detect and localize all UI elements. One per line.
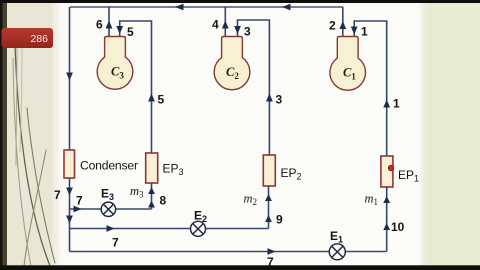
evaporator E1 [329,244,345,260]
svg-text:286: 286 [30,33,48,45]
svg-text:3: 3 [244,25,251,39]
wire: C1 suction loop from EP1 top [351,21,390,156]
svg-text:8: 8 [160,194,167,208]
svg-text:5: 5 [158,93,165,107]
svg-text:10: 10 [391,220,405,234]
svg-text:9: 9 [276,213,283,227]
page number 286 [2,28,54,48]
wire: C1 discharge riser [339,7,346,37]
wire: E1 outlet riser to EP1 [383,187,390,252]
svg-text:7: 7 [54,188,61,202]
svg-text:7: 7 [267,255,274,269]
wire: left downcomer into condenser [66,7,73,150]
wire: condenser outlet downcomer [66,178,73,252]
svg-text:1: 1 [393,97,400,111]
wire: E3 outlet riser to EP3 [148,183,155,209]
compressor C1 [330,37,366,91]
wire: C3 discharge riser [106,7,113,37]
expansion valve EP2 [263,155,275,186]
svg-text:6: 6 [96,18,103,32]
svg-text:2: 2 [329,19,336,33]
wire: C2 discharge riser [222,7,229,37]
wire: liquid branch to evaporator E2 [70,225,269,232]
svg-text:Condenser: Condenser [80,159,138,173]
svg-text:7: 7 [76,194,83,208]
wire: C2 suction loop from EP2 top [234,20,273,155]
evaporator E2 [191,221,206,236]
red pointer dot on EP1 [388,165,393,170]
wire: liquid branch to evaporator E3 [70,206,152,213]
svg-text:4: 4 [212,18,219,32]
condenser [64,150,75,178]
wire: liquid branch to evaporator E1 [70,248,387,255]
expansion valve EP1 [381,156,393,187]
compressor C2 [214,37,250,90]
svg-text:5: 5 [127,25,134,39]
expansion valve EP3 [146,153,158,183]
wire: E2 outlet riser to EP2 [265,186,272,229]
evaporator E3 [101,202,115,216]
svg-text:7: 7 [112,236,119,250]
svg-text:3: 3 [276,93,283,107]
compressor C3 [97,37,133,90]
wire: C3 suction loop from EP3 top [116,21,155,153]
wire: top header line from C1 riser to left downcomer [70,4,343,11]
svg-text:1: 1 [361,25,368,39]
